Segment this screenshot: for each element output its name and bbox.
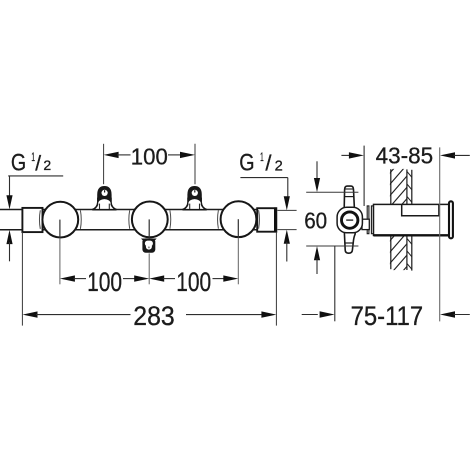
label G 1/2 left bbox=[6, 150, 63, 262]
svg-text:/: / bbox=[265, 151, 272, 176]
body bottom bold edge bbox=[374, 234, 450, 236]
center line middle circle (inside node) bbox=[148, 219, 150, 238]
dim bottom 100/100: line + arrows bbox=[60, 275, 238, 281]
node: right connection circle bbox=[221, 201, 257, 237]
svg-text:43-85: 43-85 bbox=[376, 143, 434, 169]
adapter ring 2 bbox=[371, 206, 373, 234]
right end cap bold edge bbox=[274, 207, 277, 232]
socket arc right of left circle bbox=[79, 210, 82, 229]
svg-text:1: 1 bbox=[260, 152, 264, 164]
node: middle connection circle bbox=[132, 202, 168, 238]
dim top 100: line + arrows bbox=[104, 152, 195, 158]
left end cap bbox=[22, 208, 42, 232]
center line left circle (extension below) bbox=[59, 238, 61, 284]
dim 75-117: line + arrows bbox=[302, 311, 470, 317]
body main cylinder bbox=[374, 204, 450, 235]
reference line (rear mounting plane, grey) bbox=[439, 147, 441, 321]
center line right circle (inside node) bbox=[237, 219, 239, 237]
dim top 100: ext line right bbox=[194, 144, 196, 184]
svg-text:/: / bbox=[35, 152, 41, 175]
svg-text:2: 2 bbox=[275, 158, 283, 174]
label G 1/2 right bbox=[239, 150, 296, 262]
socket arc left of right circle bbox=[217, 210, 220, 229]
wire: pipe bottom outline bbox=[0, 229, 276, 231]
svg-text:G: G bbox=[11, 150, 26, 177]
body top notch/slot bbox=[402, 205, 439, 216]
socket arc left of left circle bbox=[38, 210, 41, 229]
handle front plate (rounded square) bbox=[337, 207, 362, 233]
svg-text:2: 2 bbox=[43, 157, 51, 173]
dim 60: ext line bottom bbox=[306, 245, 358, 247]
wall rear boundary line (outer) bbox=[411, 170, 413, 271]
handle spoke (right arm) bbox=[362, 219, 369, 229]
wall front boundary line bbox=[390, 169, 392, 269]
svg-text:G: G bbox=[239, 150, 254, 177]
svg-text:75-117: 75-117 bbox=[351, 301, 424, 331]
wire: pipe top outline bbox=[0, 209, 276, 211]
handle bottom lug bbox=[344, 231, 355, 253]
ext line 283 right bbox=[275, 232, 277, 326]
svg-text:100: 100 bbox=[176, 267, 211, 297]
node: left connection circle bbox=[42, 202, 78, 238]
center line middle circle (extension below bracket) bbox=[148, 253, 150, 284]
dim top 100: ext line left bbox=[103, 144, 105, 184]
wall hatching (cross-section) bbox=[388, 139, 410, 300]
svg-text:283: 283 bbox=[133, 301, 175, 331]
svg-text:60: 60 bbox=[304, 208, 327, 234]
socket arc right of right circle bbox=[258, 210, 261, 229]
socket arc left of middle circle bbox=[128, 210, 131, 229]
body rear flange bbox=[449, 201, 453, 238]
dim 60: arrows bbox=[314, 161, 320, 274]
handle top lug bbox=[344, 186, 354, 208]
mounting bracket 1 (top, cx=104.4) bbox=[92, 186, 116, 210]
SIDE VIEW GROUP bbox=[302, 139, 470, 331]
dim 60: ext line top bbox=[306, 191, 358, 193]
mounting bracket 2 (top, cx=194.6) bbox=[183, 186, 207, 210]
svg-text:100: 100 bbox=[87, 267, 122, 297]
FRONT VIEW GROUP bbox=[0, 144, 297, 332]
extension line 43-85 left (front face) bbox=[363, 146, 365, 206]
adapter ring 1 bbox=[367, 206, 369, 234]
ext line 283 left bbox=[21, 232, 23, 326]
socket arc right of middle circle bbox=[169, 210, 172, 229]
right end cap bbox=[257, 208, 276, 232]
wall rear boundary line (inner) bbox=[406, 169, 408, 270]
wall plaster strip hatching bbox=[406, 171, 412, 270]
dim 283: line + arrows bbox=[23, 311, 277, 317]
handle center dash bbox=[346, 219, 353, 221]
center line left circle (inside node) bbox=[59, 220, 61, 238]
mounting bracket 3 (bottom, cx=148.8) bbox=[141, 238, 157, 252]
extension line 75-117 left bbox=[334, 246, 336, 321]
svg-text:100: 100 bbox=[131, 144, 168, 170]
handle boss ring (bold) bbox=[342, 212, 358, 228]
center line right circle (extension below) bbox=[237, 238, 239, 285]
dim 43-85: line + arrows bbox=[341, 152, 469, 158]
